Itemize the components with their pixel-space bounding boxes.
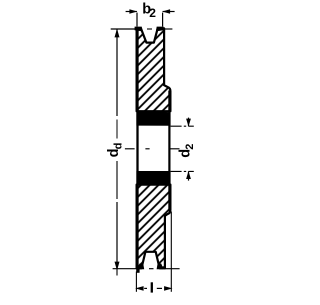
d2 reference line bottom (dash-dot) bbox=[171, 170, 194, 172]
b2 extension line right bbox=[162, 13, 164, 27]
svg-text:2: 2 bbox=[149, 6, 156, 20]
bore axis center line bbox=[125, 148, 135, 150]
svg-text:d: d bbox=[112, 143, 124, 150]
pulley lower rim+hub section (hatched) bbox=[137, 185, 171, 269]
d2 reference line top (dash-dot) bbox=[171, 125, 194, 127]
bottom face outline left lip bbox=[136, 266, 142, 268]
b2 extension line left bbox=[136, 13, 138, 27]
bottom face outline right lip bbox=[159, 266, 166, 268]
top reference line dash in groove bbox=[147, 28, 152, 30]
top reference line (rim top, dash-dot) bbox=[111, 28, 137, 30]
bottom reference line (rim bottom, dash-dot) bbox=[113, 268, 136, 270]
bottom groove right wall foot bbox=[157, 264, 164, 270]
label d2 (rotated) bbox=[178, 144, 196, 158]
taper bush lower (solid black band) bbox=[136, 171, 170, 185]
bottom groove left wall foot bbox=[137, 264, 144, 270]
svg-text:2: 2 bbox=[184, 144, 196, 150]
left face outline bbox=[136, 28, 138, 269]
label dd (rotated) bbox=[106, 143, 124, 158]
dd dimension line + arrows bbox=[116, 29, 118, 116]
pulley upper rim+hub section (hatched) bbox=[137, 28, 171, 111]
b2 dimension line left + arrow bbox=[126, 11, 137, 13]
l extension line right bbox=[170, 212, 172, 292]
top groove right lip bbox=[156, 27, 164, 32]
label l bbox=[151, 282, 153, 292]
b2 dimension line right + arrow bbox=[163, 11, 175, 13]
l dimension arrows + line bbox=[135, 286, 143, 291]
bottom-left corner ink bbox=[136, 268, 139, 273]
taper bush upper (solid black band) bbox=[136, 110, 170, 126]
l extension line left bbox=[135, 272, 137, 292]
top groove left lip bbox=[135, 27, 143, 32]
d2 dimension stubs + arrows bbox=[188, 118, 190, 127]
hub right face outline bbox=[168, 91, 170, 212]
